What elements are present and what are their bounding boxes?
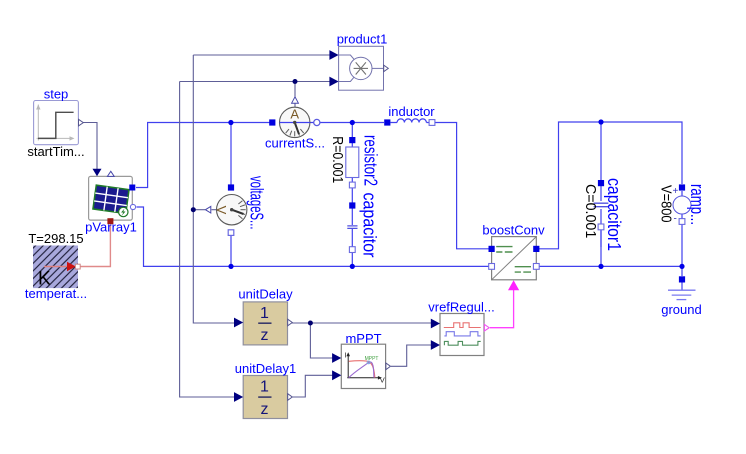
svg-text:1: 1 [260,378,269,395]
svg-text:T=298.15: T=298.15 [28,231,83,246]
svg-text:unitDelay: unitDelay [238,287,293,302]
svg-text:ramp...: ramp... [687,184,707,225]
svg-text:z: z [261,401,269,418]
svg-text:A: A [290,107,299,122]
svg-text:z: z [261,327,269,344]
svg-text:I: I [345,351,347,360]
svg-text:step: step [44,87,69,102]
svg-text:unitDelay1: unitDelay1 [235,361,296,376]
svg-text:capacitor1: capacitor1 [604,178,624,251]
svg-text:currentS...: currentS... [265,136,325,151]
svg-text:1: 1 [260,305,269,322]
svg-text:pVarray1: pVarray1 [85,220,137,235]
svg-text:voltageS...: voltageS... [247,176,267,230]
svg-text:V: V [380,376,385,385]
svg-text:inductor: inductor [388,104,435,119]
svg-text:vrefRegul...: vrefRegul... [428,300,494,315]
svg-text:ground: ground [661,302,701,317]
svg-text:capacitor: capacitor [360,193,380,258]
svg-text:boostConv: boostConv [482,223,545,238]
svg-text:product1: product1 [337,32,388,47]
svg-text:resistor2: resistor2 [361,135,381,186]
svg-text:R=0.001: R=0.001 [329,136,346,183]
svg-text:C=0.001: C=0.001 [582,184,599,238]
svg-text:temperat...: temperat... [25,286,87,301]
svg-text:startTim...: startTim... [27,144,84,159]
svg-text:mPPT: mPPT [345,331,381,346]
svg-text:MPPT: MPPT [365,356,379,362]
svg-text:V: V [214,206,229,215]
svg-text:V=800: V=800 [658,185,675,223]
